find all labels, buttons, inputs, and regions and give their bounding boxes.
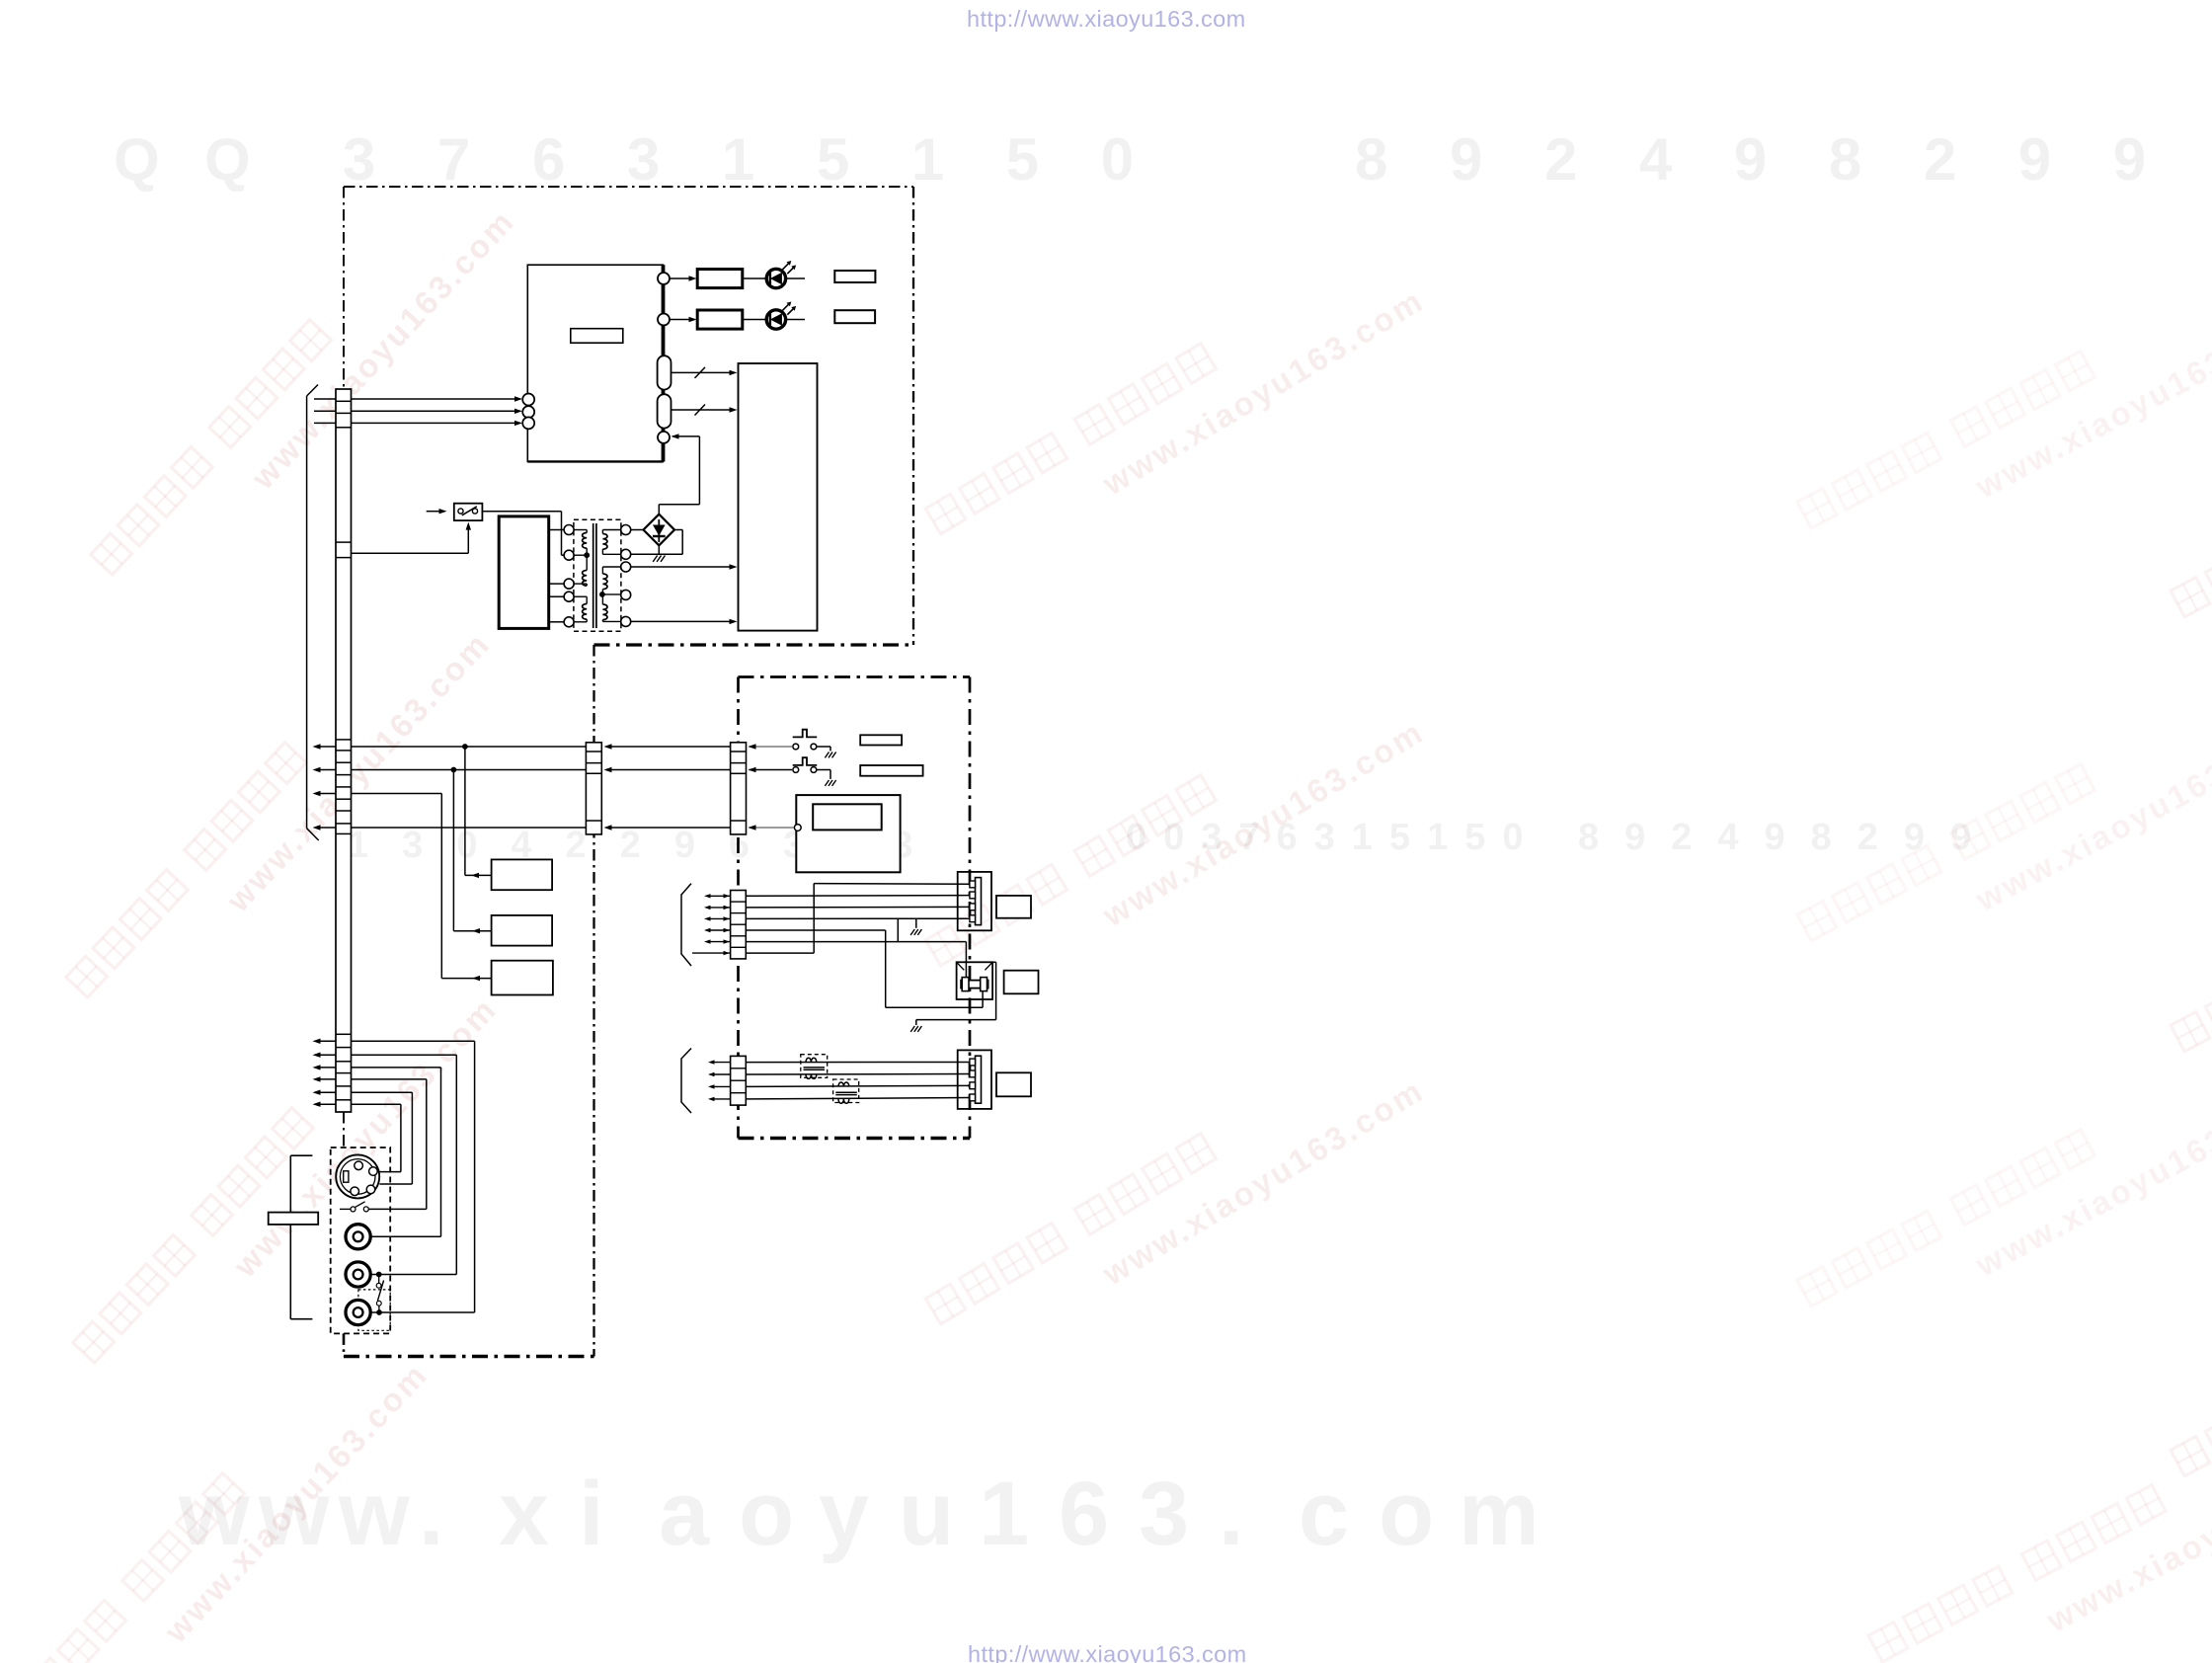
- svg-text:892498299: 892498299: [1355, 126, 2208, 193]
- svg-text:.: .: [419, 1464, 444, 1564]
- svg-text:892498299: 892498299: [1578, 817, 1997, 858]
- svg-text:x: x: [499, 1464, 549, 1564]
- svg-text:6: 6: [1059, 1464, 1109, 1564]
- svg-text:376315150: 376315150: [343, 126, 1196, 193]
- svg-text:y: y: [819, 1464, 869, 1564]
- svg-text:1: 1: [979, 1464, 1029, 1564]
- svg-text:http://www.xiaoyu163.com: http://www.xiaoyu163.com: [967, 6, 1246, 32]
- svg-text:a: a: [659, 1464, 710, 1564]
- svg-text:Q: Q: [114, 126, 160, 193]
- svg-text:u: u: [899, 1464, 954, 1564]
- svg-text:3: 3: [1139, 1464, 1189, 1564]
- svg-text:i: i: [579, 1464, 604, 1564]
- svg-text:Q: Q: [204, 126, 251, 193]
- svg-text:http://www.xiaoyu163.com: http://www.xiaoyu163.com: [968, 1641, 1247, 1663]
- svg-text:.: .: [1219, 1464, 1244, 1564]
- svg-text:o: o: [739, 1464, 794, 1564]
- svg-text:c: c: [1299, 1464, 1349, 1564]
- svg-text:m: m: [1459, 1464, 1540, 1564]
- svg-text:o: o: [1379, 1464, 1434, 1564]
- svg-text:w: w: [338, 1464, 410, 1564]
